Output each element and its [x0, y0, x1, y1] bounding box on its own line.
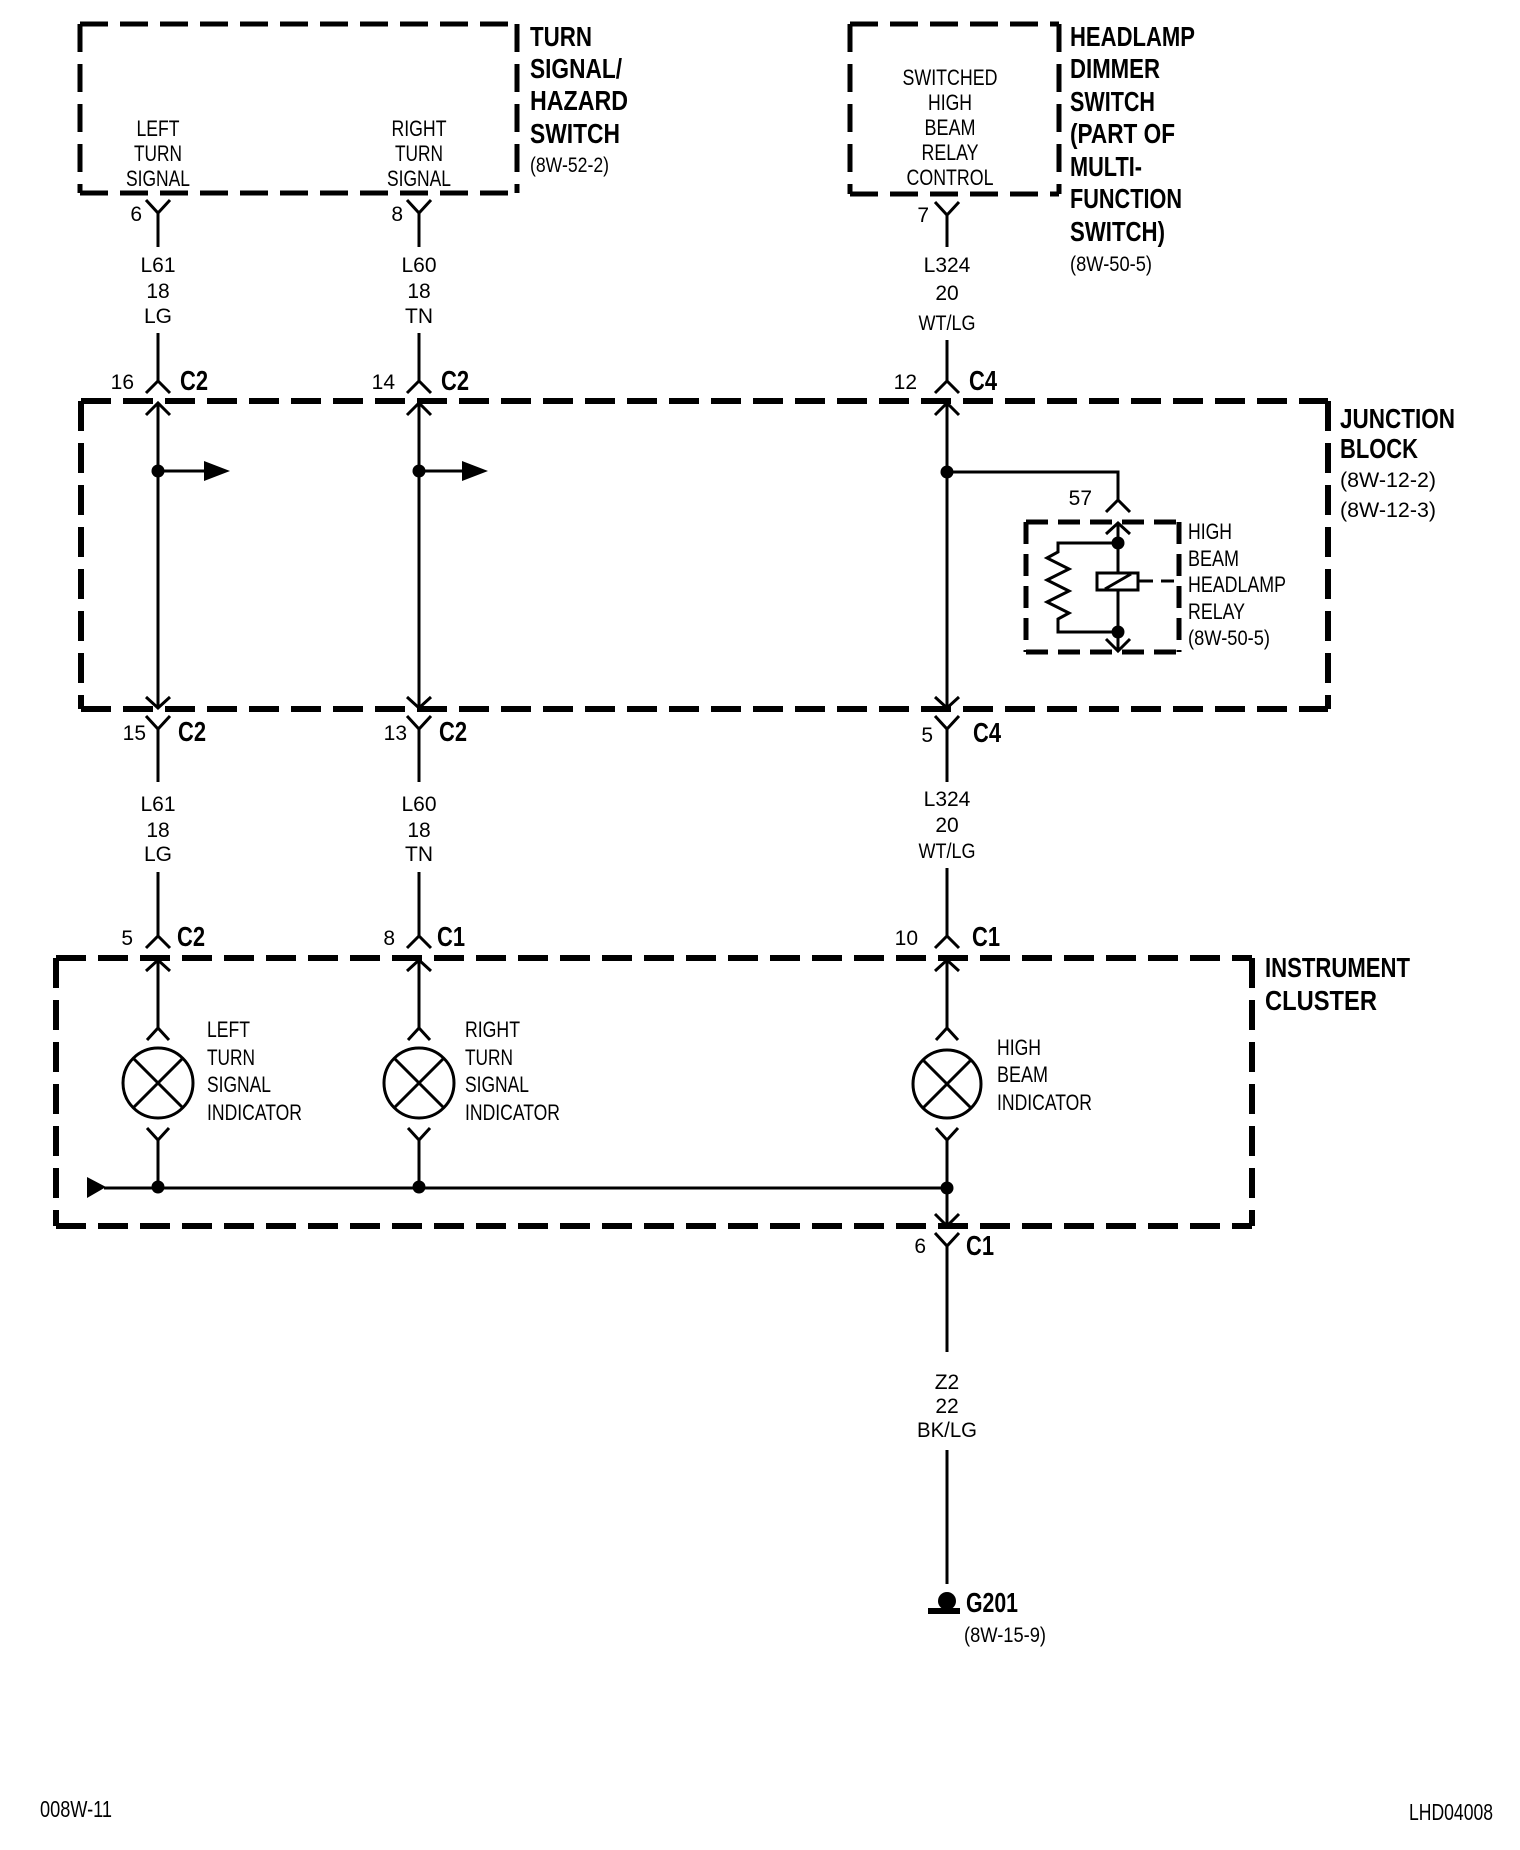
- svg-text:L324: L324: [924, 254, 971, 277]
- svg-text:(PART OF: (PART OF: [1070, 118, 1175, 149]
- svg-text:8: 8: [391, 203, 403, 226]
- svg-text:INDICATOR: INDICATOR: [997, 1090, 1092, 1115]
- svg-text:C2: C2: [180, 365, 208, 396]
- svg-text:TN: TN: [405, 305, 433, 328]
- svg-text:(8W-50-5): (8W-50-5): [1070, 253, 1152, 276]
- node middle junction dot with arrow: [413, 461, 489, 481]
- svg-text:HIGH: HIGH: [1188, 519, 1232, 544]
- svg-text:C4: C4: [969, 365, 997, 396]
- svg-text:(8W-52-2): (8W-52-2): [530, 154, 609, 177]
- svg-text:SWITCH): SWITCH): [1070, 216, 1165, 247]
- node left junction dot with arrow: [152, 461, 231, 481]
- left turn signal label: [126, 116, 190, 191]
- svg-text:TURN: TURN: [530, 21, 592, 52]
- relay coil resistor: [1047, 543, 1118, 632]
- connector 14 C2: [372, 365, 469, 415]
- svg-text:(8W-15-9): (8W-15-9): [964, 1624, 1046, 1647]
- svg-text:C1: C1: [966, 1230, 994, 1261]
- headlamp dimmer switch box: [850, 24, 1059, 194]
- svg-text:SIGNAL: SIGNAL: [387, 166, 451, 191]
- high beam indicator label: [997, 1035, 1092, 1115]
- svg-text:TN: TN: [405, 843, 433, 866]
- svg-text:BLOCK: BLOCK: [1340, 433, 1418, 464]
- connector 12 C4: [894, 365, 998, 415]
- svg-text:INDICATOR: INDICATOR: [465, 1100, 560, 1125]
- wire Z2 22 BK/LG: [917, 1371, 977, 1584]
- svg-text:7: 7: [917, 204, 929, 227]
- svg-text:TURN: TURN: [134, 141, 182, 166]
- svg-text:HEADLAMP: HEADLAMP: [1188, 572, 1286, 597]
- svg-text:MULTI-: MULTI-: [1070, 151, 1142, 182]
- right turn signal indicator label: [465, 1017, 560, 1125]
- instrument cluster title: [1265, 952, 1410, 1016]
- high beam indicator lamp: [913, 960, 981, 1226]
- svg-text:JUNCTION: JUNCTION: [1340, 403, 1455, 434]
- svg-text:HEADLAMP: HEADLAMP: [1070, 21, 1195, 52]
- svg-text:RIGHT: RIGHT: [465, 1017, 520, 1042]
- svg-text:L60: L60: [401, 254, 436, 277]
- wire L324 20 WT/LG lower: [919, 788, 976, 936]
- node right junction dot: [941, 466, 954, 479]
- connector 13 C2: [384, 697, 467, 782]
- svg-text:HIGH: HIGH: [997, 1035, 1041, 1060]
- right turn signal indicator lamp: [384, 960, 454, 1186]
- svg-text:6: 6: [130, 203, 142, 226]
- svg-text:SIGNAL: SIGNAL: [465, 1072, 529, 1097]
- pin 6 connector: [130, 200, 170, 247]
- svg-text:18: 18: [146, 280, 169, 303]
- wire left inside junction block: [157, 403, 160, 708]
- wire L60 18 TN upper: [401, 254, 436, 381]
- connector 10 C1: [895, 921, 1000, 971]
- page ref 008W-11: [40, 1796, 112, 1822]
- svg-text:CLUSTER: CLUSTER: [1265, 985, 1377, 1016]
- svg-text:16: 16: [111, 371, 134, 394]
- ground G201: [928, 1587, 1046, 1647]
- svg-text:12: 12: [894, 371, 917, 394]
- svg-text:CONTROL: CONTROL: [907, 165, 994, 190]
- svg-text:L324: L324: [924, 788, 971, 811]
- svg-text:C1: C1: [972, 921, 1000, 952]
- switched high beam relay control label: [903, 65, 998, 190]
- high beam headlamp relay box: [1026, 522, 1179, 652]
- relay bottom chevron: [1106, 639, 1130, 651]
- svg-text:LG: LG: [144, 305, 172, 328]
- svg-text:57: 57: [1069, 487, 1092, 510]
- svg-text:WT/LG: WT/LG: [919, 312, 976, 335]
- node relay bottom dot: [1112, 626, 1125, 639]
- svg-text:LEFT: LEFT: [207, 1017, 250, 1042]
- svg-text:SWITCHED: SWITCHED: [903, 65, 998, 90]
- svg-text:RIGHT: RIGHT: [392, 116, 447, 141]
- relay title: [1188, 519, 1286, 650]
- svg-text:LHD04008: LHD04008: [1409, 1799, 1493, 1825]
- junction block title: [1340, 403, 1455, 522]
- svg-text:15: 15: [123, 722, 146, 745]
- svg-text:(8W-50-5): (8W-50-5): [1188, 627, 1270, 650]
- svg-text:LEFT: LEFT: [137, 116, 180, 141]
- svg-text:TURN: TURN: [465, 1045, 513, 1070]
- wire middle inside junction block: [418, 403, 421, 708]
- connector 5 C2: [121, 921, 205, 971]
- svg-text:BEAM: BEAM: [997, 1062, 1048, 1087]
- svg-text:13: 13: [384, 722, 407, 745]
- wire L60 18 TN lower: [401, 793, 436, 936]
- svg-text:DIMMER: DIMMER: [1070, 53, 1160, 84]
- connector 8 C1: [383, 921, 465, 971]
- wire right inside junction block: [946, 403, 949, 708]
- svg-text:L61: L61: [140, 793, 175, 816]
- node bus dot right: [941, 1182, 954, 1195]
- svg-text:LG: LG: [144, 843, 172, 866]
- svg-text:18: 18: [407, 280, 430, 303]
- svg-text:8: 8: [383, 927, 395, 950]
- svg-text:FUNCTION: FUNCTION: [1070, 183, 1182, 214]
- svg-text:SIGNAL: SIGNAL: [207, 1072, 271, 1097]
- svg-text:008W-11: 008W-11: [40, 1796, 112, 1822]
- svg-text:SIGNAL/: SIGNAL/: [530, 53, 622, 84]
- relay internal wire: [1117, 523, 1120, 651]
- svg-text:10: 10: [895, 927, 918, 950]
- svg-text:RELAY: RELAY: [922, 140, 979, 165]
- svg-text:(8W-12-3): (8W-12-3): [1340, 499, 1436, 522]
- svg-text:INSTRUMENT: INSTRUMENT: [1265, 952, 1410, 983]
- svg-text:RELAY: RELAY: [1188, 599, 1245, 624]
- headlamp dimmer switch title: [1070, 21, 1195, 276]
- svg-text:C2: C2: [177, 921, 205, 952]
- svg-text:14: 14: [372, 371, 396, 394]
- svg-text:INDICATOR: INDICATOR: [207, 1100, 302, 1125]
- svg-text:HIGH: HIGH: [928, 90, 972, 115]
- connector 16 C2: [111, 365, 208, 415]
- svg-text:18: 18: [146, 819, 169, 842]
- svg-text:BEAM: BEAM: [925, 115, 976, 140]
- wire L61 18 LG upper: [140, 254, 175, 381]
- svg-text:5: 5: [921, 724, 933, 747]
- junction block box: [81, 401, 1328, 709]
- svg-text:(8W-12-2): (8W-12-2): [1340, 469, 1436, 492]
- page ref LHD04008: [1409, 1799, 1493, 1825]
- svg-text:20: 20: [935, 814, 958, 837]
- svg-text:BK/LG: BK/LG: [917, 1419, 977, 1442]
- connector 57: [1069, 487, 1130, 534]
- svg-text:TURN: TURN: [207, 1045, 255, 1070]
- svg-text:WT/LG: WT/LG: [919, 840, 976, 863]
- ground bus wire: [87, 1177, 947, 1198]
- turn signal / hazard switch box: [80, 24, 517, 193]
- left turn signal indicator lamp: [123, 960, 193, 1186]
- wire branch to relay: [947, 472, 1118, 500]
- node bus dot middle: [413, 1181, 426, 1194]
- wire L324 20 WT/LG upper: [919, 254, 976, 381]
- pin 7 connector: [917, 202, 959, 247]
- svg-text:SWITCH: SWITCH: [530, 118, 620, 149]
- connector 6 C1: [914, 1214, 994, 1352]
- svg-text:18: 18: [407, 819, 430, 842]
- svg-text:BEAM: BEAM: [1188, 546, 1239, 571]
- svg-text:L60: L60: [401, 793, 436, 816]
- wire L61 18 LG lower: [140, 793, 175, 936]
- svg-text:20: 20: [935, 282, 958, 305]
- svg-text:SWITCH: SWITCH: [1070, 86, 1155, 117]
- svg-text:SIGNAL: SIGNAL: [126, 166, 190, 191]
- node bus dot left: [152, 1181, 165, 1194]
- svg-text:C2: C2: [441, 365, 469, 396]
- svg-text:C2: C2: [439, 716, 467, 747]
- relay coil: [1097, 573, 1174, 590]
- instrument cluster box: [56, 958, 1252, 1226]
- connector 15 C2: [123, 697, 206, 782]
- svg-text:TURN: TURN: [395, 141, 443, 166]
- svg-text:6: 6: [914, 1235, 926, 1258]
- svg-text:5: 5: [121, 927, 133, 950]
- connector 5 C4: [921, 697, 1001, 782]
- svg-text:G201: G201: [966, 1587, 1018, 1618]
- svg-text:Z2: Z2: [935, 1371, 960, 1394]
- svg-text:C1: C1: [437, 921, 465, 952]
- svg-text:C2: C2: [178, 716, 206, 747]
- turn signal/hazard switch title: [530, 21, 628, 177]
- right turn signal label: [387, 116, 451, 191]
- left turn signal indicator label: [207, 1017, 302, 1125]
- svg-text:C4: C4: [973, 717, 1001, 748]
- svg-text:L61: L61: [140, 254, 175, 277]
- pin 8 connector: [391, 200, 431, 247]
- svg-text:22: 22: [935, 1395, 958, 1418]
- node relay top dot: [1112, 537, 1125, 550]
- svg-text:HAZARD: HAZARD: [530, 85, 628, 116]
